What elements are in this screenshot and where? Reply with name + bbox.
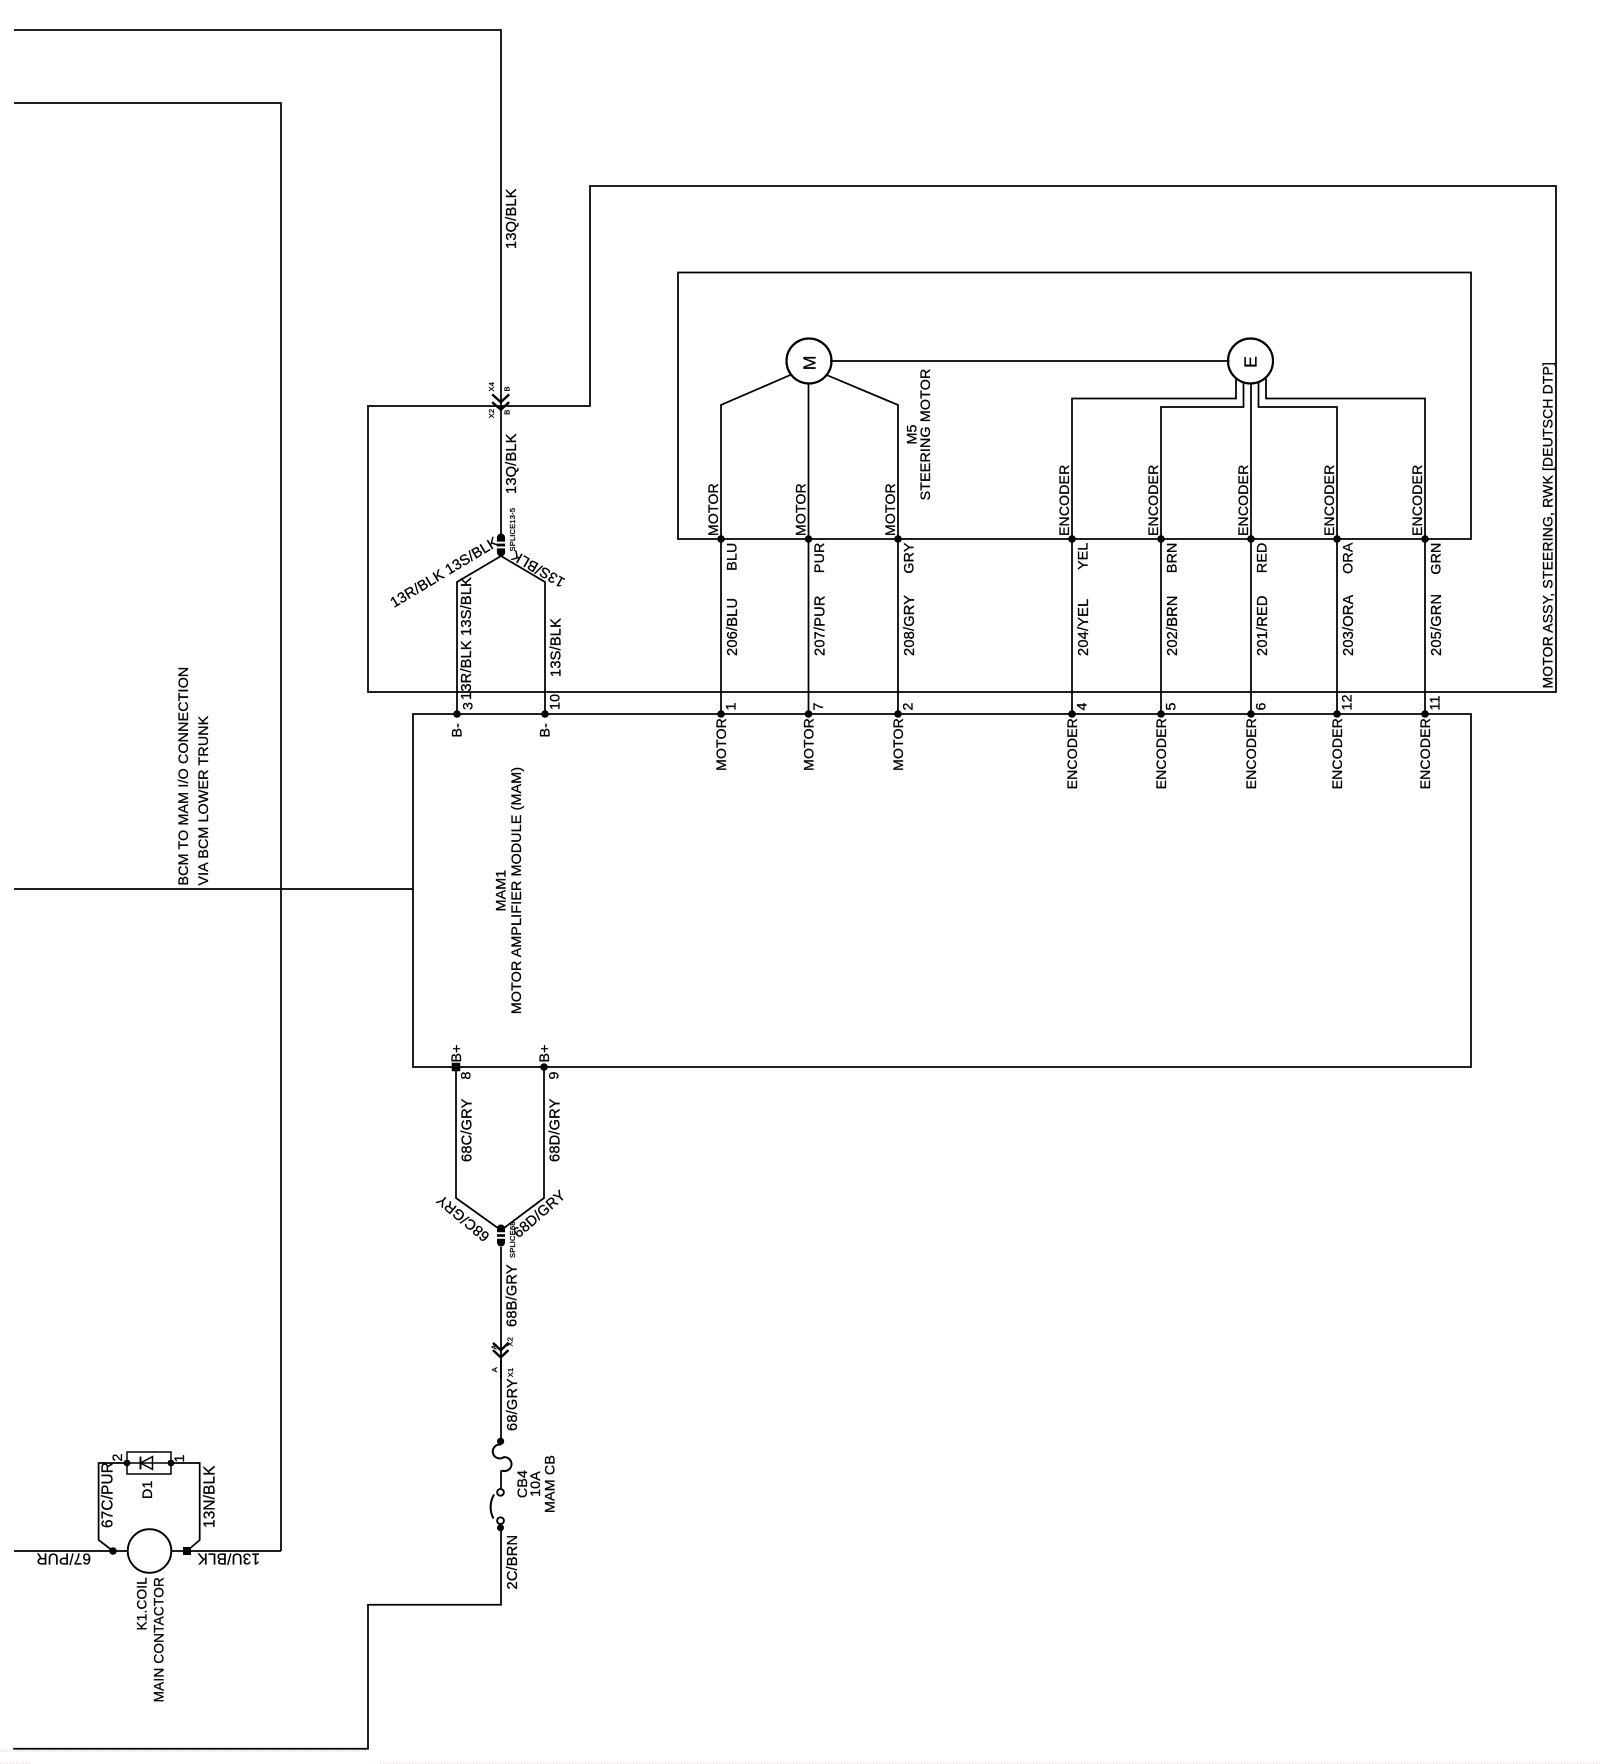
junction node MAM pin 1 [717, 710, 725, 718]
svg-text:MOTOR: MOTOR [793, 483, 809, 536]
junction node MAM pin 9 (B+) [540, 1063, 548, 1071]
svg-text:A: A [490, 1367, 499, 1372]
vertical label 13R/BLK 13S/BLK [459, 577, 475, 700]
pin colour label PUR [812, 543, 828, 574]
svg-text:MAIN CONTACTOR: MAIN CONTACTOR [152, 1577, 167, 1702]
junction node motor-box pin (RED) [1247, 535, 1255, 543]
svg-text:MOTOR: MOTOR [705, 483, 721, 536]
svg-text:MOTOR ASSY, STEERING, RWK [DEU: MOTOR ASSY, STEERING, RWK [DEUTSCH DTP] [1540, 362, 1556, 689]
pin name ENCODER (motor side, wire 205/GRN) [1409, 465, 1425, 536]
wire motor lead PUR (M centre lead) [808, 383, 810, 715]
wire encoder lead GRN (outer-right stub and rail) [1266, 379, 1425, 715]
svg-text:3: 3 [461, 702, 477, 710]
svg-text:ENCODER: ENCODER [1235, 465, 1251, 536]
svg-text:B: B [503, 409, 512, 414]
pin name B+ (MAM pin 8) [449, 1044, 465, 1062]
pin name ENCODER (MAM side, wire 205/GRN) [1417, 718, 1433, 789]
svg-text:YEL: YEL [1076, 543, 1092, 570]
wire label 208/GRY [902, 595, 918, 656]
wire 13Q/BLK feed from BCM, top horizontal + vertical drop at x=501 [14, 29, 501, 534]
wire label 13Q/BLK (below connector, above SPLICE13-5) [504, 433, 520, 494]
pin name ENCODER (motor side, wire 203/ORA) [1321, 465, 1337, 536]
pin number 9 (MAM) [547, 1071, 563, 1079]
svg-text:7: 7 [811, 702, 827, 710]
svg-text:13N/BLK: 13N/BLK [202, 1465, 219, 1528]
wire 67/PUR (page edge to K1 coil) [14, 1550, 128, 1552]
connector name X2 (lower connector) [506, 1337, 515, 1347]
wire motor lead GRY (M to pin face) [826, 375, 899, 715]
svg-text:204/YEL: 204/YEL [1076, 599, 1092, 656]
svg-text:RED: RED [1255, 543, 1271, 574]
svg-text:SPLICE13-5: SPLICE13-5 [508, 508, 517, 552]
pin name B+ (MAM pin 9) [537, 1044, 553, 1062]
junction node MAM pin 2 [894, 710, 902, 718]
pin name ENCODER (MAM side, wire 203/ORA) [1329, 718, 1345, 789]
pin number 11 (MAM) [1427, 695, 1443, 710]
svg-text:B-: B- [538, 723, 554, 738]
svg-text:B: B [503, 386, 512, 391]
wire BCM to MAM I/O (horizontal into MAM left edge) [14, 888, 413, 890]
pin name B- (MAM pin 3) [450, 723, 466, 738]
svg-text:13S/BLK: 13S/BLK [549, 618, 565, 677]
connector pin A (X2 side) [490, 1344, 499, 1349]
connector name X4 [487, 382, 496, 392]
svg-text:2C/BRN: 2C/BRN [505, 1535, 521, 1590]
svg-text:ENCODER: ENCODER [1064, 718, 1080, 789]
svg-text:ENCODER: ENCODER [1409, 465, 1425, 536]
svg-text:ENCODER: ENCODER [1153, 718, 1169, 789]
svg-text:GRN: GRN [1429, 543, 1445, 575]
pin number 1 (MAM) [723, 702, 739, 710]
svg-text:X4: X4 [487, 382, 496, 392]
wire label 67C/PUR [100, 1462, 117, 1528]
svg-text:1: 1 [172, 1454, 188, 1462]
vertical label 68D/GRY [548, 1098, 564, 1162]
wire label 206/BLU [725, 598, 741, 656]
wire encoder lead ORA (inner-right stub and rail) [1259, 382, 1338, 715]
vertical label 68C/GRY [460, 1098, 476, 1162]
wire label 13N/BLK [202, 1465, 219, 1528]
svg-text:SPLICE68: SPLICE68 [508, 1221, 517, 1258]
junction node MAM pin 7 [805, 710, 813, 718]
pin number 6 (MAM) [1253, 702, 1269, 710]
connector X2-to-X1 pin A (inline connector symbol) [493, 1343, 508, 1358]
device label MAM1 MOTOR AMPLIFIER MODULE (MAM) [494, 767, 526, 1014]
wire motor lead BLU (M to pin face) [721, 375, 792, 715]
pin name MOTOR (motor side, wire 207/PUR) [793, 483, 809, 536]
svg-text:67/PUR: 67/PUR [36, 1550, 91, 1567]
wire 68D/GRY (MAM pin 9 to SPLICE68) [502, 1067, 544, 1230]
svg-text:68/GRY: 68/GRY [505, 1378, 521, 1431]
svg-text:BCM TO MAM I/O CONNECTION: BCM TO MAM I/O CONNECTION [176, 667, 192, 886]
diode pin node 1 [168, 1460, 175, 1467]
pin colour label BRN [1165, 543, 1181, 574]
junction node MAM pin 3 [453, 710, 461, 718]
terminal node K1 (13U/BLK side) [183, 1547, 191, 1555]
pin colour label BLU [725, 543, 741, 571]
svg-text:MOTOR: MOTOR [801, 718, 817, 771]
svg-text:12: 12 [1339, 694, 1355, 710]
svg-text:ORA: ORA [1341, 542, 1357, 574]
svg-text:9: 9 [547, 1071, 563, 1079]
pin name MOTOR (MAM side, wire 208/GRY) [890, 718, 906, 771]
svg-text:MOTOR AMPLIFIER MODULE (MAM): MOTOR AMPLIFIER MODULE (MAM) [509, 767, 525, 1014]
svg-text:BRN: BRN [1165, 543, 1181, 574]
motor M5 symbol (circle M) [787, 339, 832, 384]
wire 68/GRY (connector X1 to CB4) [500, 1360, 502, 1441]
svg-text:ENCODER: ENCODER [1329, 718, 1345, 789]
svg-text:13Q/BLK: 13Q/BLK [504, 188, 520, 249]
svg-text:B+: B+ [449, 1044, 465, 1062]
diode D1 body box [127, 1452, 171, 1474]
connector pin B (X2 side) [503, 409, 512, 414]
pin name MOTOR (motor side, wire 206/BLU) [705, 483, 721, 536]
svg-text:5: 5 [1163, 702, 1179, 710]
junction node motor-box pin (BRN) [1157, 535, 1165, 543]
svg-text:13Q/BLK: 13Q/BLK [504, 433, 520, 494]
svg-text:208/GRY: 208/GRY [902, 595, 918, 656]
junction node motor-box pin (YEL) [1068, 535, 1076, 543]
svg-text:GRY: GRY [902, 542, 918, 573]
svg-text:ENCODER: ENCODER [1417, 718, 1433, 789]
svg-text:13U/BLK: 13U/BLK [197, 1550, 260, 1567]
diode D1 symbol (triangle and cathode bar) [127, 1457, 171, 1470]
svg-text:206/BLU: 206/BLU [725, 598, 741, 656]
svg-text:68D/GRY: 68D/GRY [511, 1188, 570, 1242]
wire label 68B/GRY [505, 1264, 521, 1327]
connector name X1 [506, 1368, 515, 1378]
svg-text:202/BRN: 202/BRN [1165, 595, 1181, 656]
pin colour label YEL [1076, 543, 1092, 570]
pin colour label GRN [1429, 543, 1445, 575]
svg-text:201/RED: 201/RED [1255, 595, 1271, 656]
svg-text:VIA BCM LOWER TRUNK: VIA BCM LOWER TRUNK [196, 715, 212, 885]
device label CB4 10A MAM CB [515, 1455, 559, 1513]
junction node motor-box pin (PUR) [805, 535, 813, 543]
wire label 67/PUR (reads upside-down) [36, 1550, 91, 1567]
junction node MAM pin 5 [1157, 710, 1165, 718]
encoder E symbol (circle E) [1228, 339, 1273, 384]
svg-text:MOTOR: MOTOR [890, 718, 906, 771]
svg-text:MOTOR: MOTOR [713, 718, 729, 771]
wire label 2C/BRN [505, 1535, 521, 1590]
svg-text:8: 8 [459, 1071, 475, 1079]
pin name ENCODER (motor side, wire 204/YEL) [1056, 465, 1072, 536]
motor assembly harness boundary outline [368, 186, 1556, 692]
wire label 201/RED [1255, 595, 1271, 656]
svg-text:2: 2 [900, 702, 916, 710]
svg-text:M: M [800, 356, 820, 371]
junction node MAM pin 6 [1247, 710, 1255, 718]
MAM1 module box [413, 714, 1471, 1067]
svg-text:BLU: BLU [725, 543, 741, 571]
wire 13S/BLK (splice to MAM pin 10) [501, 556, 545, 714]
pin number 2 (MAM) [900, 702, 916, 710]
pin name ENCODER (MAM side, wire 202/BRN) [1153, 718, 1169, 789]
wire 13U/BLK (K1 coil to riser x=281) [171, 1550, 281, 1552]
pin number 10 (MAM B-) [548, 694, 564, 710]
svg-text:68C/GRY: 68C/GRY [460, 1098, 476, 1162]
svg-text:PUR: PUR [812, 543, 828, 574]
svg-text:11: 11 [1427, 695, 1443, 710]
wire label 207/PUR [813, 595, 829, 656]
svg-text:6: 6 [1253, 702, 1269, 710]
svg-text:B-: B- [450, 723, 466, 738]
wire encoder lead RED (centre lead) [1250, 383, 1252, 715]
pin number 2 (D1) [110, 1453, 126, 1461]
wire 68B/GRY (SPLICE68 to connector X2) [500, 1247, 502, 1378]
wire 13R/BLK 13S/BLK (splice to MAM pin 3) [457, 556, 501, 714]
wire 13U/BLK feed, second horizontal + long vertical drop at x=281 [14, 102, 281, 1551]
wire 67C/PUR (diode branch, anode loop left side) [99, 1463, 126, 1551]
wire label 202/BRN [1165, 595, 1181, 656]
splice SPLICE68 symbol [496, 1225, 507, 1247]
junction node motor-box pin (ORA) [1333, 535, 1341, 543]
steering motor unit box (contains M and E) [678, 273, 1471, 540]
pin name MOTOR (MAM side, wire 206/BLU) [713, 718, 729, 771]
svg-text:13R/BLK 13S/BLK: 13R/BLK 13S/BLK [459, 577, 475, 700]
circuit breaker CB4 symbol [491, 1438, 512, 1532]
svg-text:13R/BLK 13S/BLK: 13R/BLK 13S/BLK [388, 534, 502, 611]
pin name ENCODER (motor side, wire 201/RED) [1235, 465, 1251, 536]
svg-text:68D/GRY: 68D/GRY [548, 1098, 564, 1162]
svg-text:10: 10 [548, 694, 564, 710]
outline label MOTOR ASSY, STEERING, RWK [DEUTSCH DTP] [1540, 362, 1556, 689]
coil K1 symbol (circle) [128, 1529, 172, 1573]
reference label D1 [140, 1480, 156, 1499]
pin number 3 (MAM B-) [461, 702, 477, 710]
svg-text:MAM1: MAM1 [494, 870, 510, 912]
wire label 204/YEL [1076, 599, 1092, 656]
pin colour label ORA [1341, 542, 1357, 574]
pin name ENCODER (MAM side, wire 201/RED) [1243, 718, 1259, 789]
svg-text:4: 4 [1074, 702, 1090, 710]
pin number 5 (MAM) [1163, 702, 1179, 710]
svg-text:2: 2 [110, 1453, 126, 1461]
svg-text:E: E [1241, 356, 1261, 368]
wire encoder lead YEL (outer-left stub and rail) [1072, 379, 1236, 715]
svg-text:13S/BLK: 13S/BLK [509, 547, 568, 590]
wire label 205/GRN [1429, 594, 1445, 656]
pin name MOTOR (motor side, wire 208/GRY) [882, 483, 898, 536]
svg-text:207/PUR: 207/PUR [813, 595, 829, 656]
wire 68C/GRY (MAM pin 8 to SPLICE68) [456, 1067, 500, 1230]
connector pin A (X1 side) [490, 1367, 499, 1372]
diagonal label 68D/GRY [511, 1188, 570, 1242]
wire label 68/GRY [505, 1378, 521, 1431]
wire encoder lead BRN (inner-left stub and rail) [1161, 382, 1244, 715]
junction node motor-box pin (BLU) [717, 535, 725, 543]
pin name B- (MAM pin 10) [538, 723, 554, 738]
junction node K1 terminal (67/PUR side) [109, 1547, 117, 1555]
svg-text:MAM CB: MAM CB [543, 1455, 559, 1513]
junction node motor-box pin (GRY) [894, 535, 902, 543]
junction node motor-box pin (GRN) [1421, 535, 1429, 543]
svg-text:ENCODER: ENCODER [1056, 465, 1072, 536]
wire 2C/BRN (CB4 down and across to page edge) [13, 1529, 501, 1749]
splice label SPLICE13-5 [508, 508, 517, 552]
junction node MAM pin 12 [1333, 710, 1341, 718]
wire 13N/BLK (diode branch, cathode loop right side) [172, 1463, 200, 1551]
page-break dotted line (bottom) [0, 1751, 1600, 1763]
svg-text:205/GRN: 205/GRN [1429, 594, 1445, 656]
pin colour label RED [1255, 543, 1271, 574]
diode pin node 2 [124, 1460, 131, 1467]
svg-text:ENCODER: ENCODER [1243, 718, 1259, 789]
diagonal label 68C/GRY [434, 1191, 493, 1244]
svg-text:MOTOR: MOTOR [882, 483, 898, 536]
svg-text:68B/GRY: 68B/GRY [505, 1264, 521, 1327]
svg-text:A: A [490, 1344, 499, 1349]
junction node MAM pin 10 [541, 710, 549, 718]
svg-text:67C/PUR: 67C/PUR [100, 1462, 117, 1528]
connector name X2 [487, 409, 496, 419]
svg-text:203/ORA: 203/ORA [1341, 595, 1357, 656]
connector pin B (X4 side) [503, 386, 512, 391]
wire link M to E [830, 360, 1230, 362]
svg-text:B+: B+ [537, 1044, 553, 1062]
connector X4-to-X2 pin B (inline connector symbol on wire 13Q/BLK) [492, 394, 509, 409]
pin colour label GRY [902, 542, 918, 573]
pin name ENCODER (MAM side, wire 204/YEL) [1064, 718, 1080, 789]
device label M5 STEERING MOTOR [905, 369, 935, 501]
svg-text:X1: X1 [506, 1368, 515, 1378]
terminal node MAM pin 8 (B+) [452, 1063, 461, 1072]
splice SPLICE13-5 symbol [496, 534, 507, 557]
svg-text:D1: D1 [140, 1480, 156, 1499]
wire label 13U/BLK (reads upside-down) [197, 1550, 260, 1567]
svg-text:X2: X2 [487, 409, 496, 419]
pin number 1 (D1) [172, 1454, 188, 1462]
pin number 7 (MAM) [811, 702, 827, 710]
splice label SPLICE68 [508, 1221, 517, 1258]
pin number 8 (MAM) [459, 1071, 475, 1079]
pin name MOTOR (MAM side, wire 207/PUR) [801, 718, 817, 771]
svg-text:ENCODER: ENCODER [1321, 465, 1337, 536]
svg-text:1: 1 [723, 702, 739, 710]
svg-text:STEERING MOTOR: STEERING MOTOR [918, 369, 934, 501]
junction node MAM pin 4 [1068, 710, 1076, 718]
note label BCM TO MAM I/O CONNECTION VIA BCM LOWER TRUNK [176, 667, 212, 886]
diagonal label 13S/BLK [509, 547, 568, 590]
pin number 12 (MAM) [1339, 694, 1355, 710]
svg-text:X2: X2 [506, 1337, 515, 1347]
wire label 203/ORA [1341, 595, 1357, 656]
pin number 4 (MAM) [1074, 702, 1090, 710]
diagonal label 13R/BLK 13S/BLK [388, 534, 502, 611]
pin name ENCODER (motor side, wire 202/BRN) [1145, 465, 1161, 536]
wire label 13Q/BLK (above connector X4/X2) [504, 188, 520, 249]
device label K1.COIL MAIN CONTACTOR [135, 1577, 167, 1703]
svg-text:ENCODER: ENCODER [1145, 465, 1161, 536]
junction node MAM pin 11 [1421, 710, 1429, 718]
vertical label 13S/BLK [549, 618, 565, 677]
svg-text:K1.COIL: K1.COIL [135, 1577, 150, 1631]
